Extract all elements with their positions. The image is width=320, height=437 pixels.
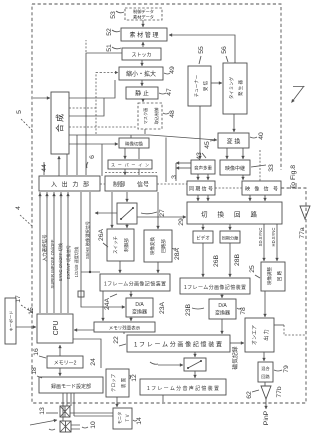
triangle 77a [300,206,310,219]
label 10 [90,421,97,429]
box Q video [193,231,213,243]
label 47 [159,88,173,96]
svg-text:信号: 信号 [137,181,149,189]
label 17 [15,295,33,313]
box 45: converter [218,133,249,148]
box 51: stocker [122,48,161,60]
signal line x81 to D/A [81,192,125,307]
svg-text:縮小・拡大: 縮小・拡大 [126,70,156,78]
svg-text:素材データ: 素材データ [133,13,154,20]
wire bus to N [111,192,113,228]
wire keyboard-CPU [16,326,36,328]
svg-text:D/A: D/A [135,302,144,308]
wires W1 to connectors [63,393,74,421]
box E2: superimpose [108,160,152,169]
svg-text:27: 27 [159,209,166,217]
box W: D/A 2 [209,299,236,319]
svg-text:24A: 24A [104,297,111,310]
label 33 [251,164,275,172]
svg-text:SD.SYNC: SD.SYNC [258,228,263,247]
wire 48 bottom stub [144,129,146,134]
label 44 [41,164,48,172]
svg-text:10: 10 [90,421,97,429]
svg-text:S5/H8 映像選択信号: S5/H8 映像選択信号 [84,221,91,259]
label 12 [130,374,138,382]
svg-text:77b: 77b [276,386,283,398]
label 29 [178,218,185,226]
wire 47-48 [142,99,144,102]
svg-text:回路部: 回路部 [160,239,167,253]
label 23B [185,303,204,316]
svg-text:映像変換: 映像変換 [149,237,156,255]
svg-text:1フレーム分音声記憶装置: 1フレーム分音声記憶装置 [147,385,219,392]
svg-text:5: 5 [16,110,23,114]
wire 56 bottom to box 45 [233,114,235,132]
svg-text:マスク画: マスク画 [143,108,149,125]
label 22 [113,336,126,346]
wire 50 right y135 long to 45 [69,135,217,140]
label 48 [163,110,176,118]
hatched connector box 2 [60,421,71,432]
label 26A [98,228,108,247]
svg-text:映像調整: 映像調整 [266,267,273,285]
svg-text:メモリー2: メモリー2 [54,361,77,367]
svg-text:取込制御: 取込制御 [153,108,160,125]
CPU box [37,314,73,343]
outer dashed system border [32,4,306,403]
box 26A: electronic switch [107,229,134,261]
box 50: composer (tall) [51,92,69,154]
svg-text:16: 16 [33,348,40,356]
svg-text:磁気記録: 磁気記録 [231,346,239,369]
label 24 [90,358,97,366]
svg-text:回 路: 回 路 [276,270,283,281]
wire T-X [264,291,266,317]
wire 50 right y144 to box E [69,143,118,145]
label 79 [274,365,290,373]
svg-text:12: 12 [131,374,138,382]
svg-text:出 力: 出 力 [263,329,270,340]
svg-text:1フレーム分画像記憶装置: 1フレーム分画像記憶装置 [104,281,166,288]
wires W3-Z1-S2 [194,352,196,357]
svg-text:53: 53 [110,11,117,19]
label 56 [221,46,228,62]
svg-text:51: 51 [106,44,113,52]
label 51 [106,44,121,52]
svg-text:3: 3 [171,175,178,179]
wire W2-W3 [123,332,125,334]
wires U1-V, V-W2 [130,291,132,297]
svg-text:47: 47 [166,88,173,96]
wire 33 down to B4 dashed [259,150,261,181]
svg-text:装 置: 装 置 [120,377,127,388]
wire CPU-M2 [59,345,61,356]
wire X-Y [263,352,265,361]
svg-text:15: 15 [28,307,35,315]
box T: adjust [261,262,285,291]
svg-text:入出力部: 入出力部 [51,181,89,189]
box R sync sep [220,231,240,243]
arrows into 43 from left [176,162,191,164]
CPU right wires: from W2 and to telop [74,329,94,331]
svg-text:メモリ残量表示: メモリ残量表示 [109,325,141,332]
box 49: reduce/enlarge [119,67,163,80]
svg-text:1フレーム分画像記憶装置: 1フレーム分画像記憶装置 [134,341,222,349]
svg-text:25: 25 [249,265,256,273]
label 13 [39,407,58,415]
wire 50 right y127 dashed long [69,126,136,128]
svg-text:28B: 28B [234,253,241,266]
svg-text:29: 29 [178,218,185,226]
wires P to Q,R [202,224,204,230]
svg-text:1フレーム分画像記憶装置: 1フレーム分画像記憶装置 [184,284,246,291]
label 49 [164,66,176,74]
wire 49-47 [141,80,143,86]
label 27 [141,209,166,217]
svg-text:映像中継: 映像中継 [225,165,245,172]
svg-text:録画モード設定部: 録画モード設定部 [51,383,91,390]
wire bus to O [157,192,159,229]
wire 50 bottom arrows to bus [58,156,60,176]
svg-text:14: 14 [136,417,143,425]
bottom box: monitor [113,408,132,429]
wire stocker left down to bus [86,53,122,175]
keyboard box [5,298,16,344]
label 23A [159,301,166,314]
wire 51-49 [141,60,143,66]
svg-text:77a: 77a [299,227,306,239]
svg-text:44: 44 [41,164,48,172]
svg-text:SUPER IMPOSE ON/OFF: SUPER IMPOSE ON/OFF [50,239,55,288]
label 52 [106,28,120,36]
svg-text:合 成: 合 成 [55,114,65,132]
wire 50 right y98 up to 49 [69,80,115,98]
label 18 [31,367,42,378]
wire into Z1 left [158,364,183,366]
label 78 [237,307,247,315]
svg-text:24: 24 [90,358,97,366]
svg-text:HD.SYNC: HD.SYNC [271,228,276,247]
wires N,O down to U1 [119,261,121,273]
svg-text:79: 79 [283,365,290,373]
wires U2-W, W-W3 [221,294,223,298]
svg-text:1/2/4/8 速度切換: 1/2/4/8 速度切換 [73,246,80,278]
box W3: frame store [127,335,230,352]
svg-text:映像切換: 映像切換 [125,140,143,147]
svg-text:55: 55 [198,46,205,54]
wires 45 to 33 [226,148,228,159]
wires 43 down to B3 [197,174,199,180]
box S1: telop [106,369,129,397]
wires E bottom to E2 [124,148,126,159]
bus box B1 [39,176,100,191]
SD/HD sync lines P to T [263,224,265,261]
wire 50 right y116 [69,98,104,116]
label 4 (system) [15,206,32,226]
svg-text:チューナー: チューナー [194,74,200,97]
svg-text:スーパーイン: スーパーイン [111,162,149,167]
labels 26B 28B [213,254,220,267]
label 14 [133,417,143,425]
wire bus to 27 [126,192,128,202]
box 47: still [126,87,158,99]
label 53 [110,11,124,19]
svg-text:入力選択信号: 入力選択信号 [41,234,48,261]
wire border to 50 [33,97,50,99]
svg-text:48: 48 [169,110,176,118]
svg-text:PinP: PinP [263,410,270,425]
wire 53-52 [142,20,144,27]
wire S1 to monitor [116,397,118,407]
input arrow bottom left [30,420,57,425]
svg-text:受 信: 受 信 [202,80,209,91]
svg-text:45: 45 [204,141,211,149]
signal line x90 to U1 [89,192,91,272]
wires connectors to monitor [70,413,113,429]
svg-text:切換回路: 切換回路 [201,210,258,219]
svg-text:ビデオ: ビデオ [196,235,210,242]
svg-text:ストッカ: ストッカ [131,53,151,59]
box P: selector [187,202,282,224]
box E: video switch [119,138,149,148]
svg-text:EXT/INT 切換信号: EXT/INT 切換信号 [65,245,72,279]
svg-text:素 材 管 理: 素 材 管 理 [129,31,158,39]
box 27: switch [117,203,137,224]
svg-text:49: 49 [169,66,176,74]
dashed box 53 (data store) [125,8,162,20]
svg-text:映像信号: 映像信号 [245,186,278,193]
label 16 [33,348,46,358]
label 28A [172,247,181,260]
svg-text:オンエア: オンエア [252,325,258,345]
svg-text:制御: 制御 [113,181,125,189]
box 43: audio mux [191,160,215,174]
svg-text:4: 4 [15,206,22,210]
hatched connector box 1 [60,406,70,417]
box U2: frame memory 2 [180,278,250,294]
label 3 on bus [171,175,178,179]
arrow from switch 27 to left [95,212,117,214]
svg-text:62: 62 [246,391,253,399]
wire W3-X [230,342,244,344]
svg-text:28A: 28A [174,247,181,260]
svg-text:33: 33 [268,164,275,172]
svg-text:音声多重: 音声多重 [194,165,212,172]
PinP output [265,399,267,409]
label 25 [249,265,260,278]
label 43 [196,152,206,160]
label 6 [87,155,96,168]
svg-text:26B: 26B [213,254,220,267]
svg-text:静 止: 静 止 [135,90,149,98]
svg-text:23B: 23B [185,303,192,316]
svg-text:SYNC ON/OFF 切換: SYNC ON/OFF 切換 [57,242,64,281]
bus box B2 [105,176,157,191]
small tilde label 11 [49,429,55,430]
wire 55 bottom to box 43 [199,106,201,159]
svg-text:18: 18 [31,367,38,375]
svg-text:17: 17 [15,295,22,303]
box V: D/A 1 [126,298,153,317]
svg-text:モニタ: モニタ [116,412,123,425]
svg-text:スイッチ: スイッチ [113,236,118,254]
label 15 [28,307,35,315]
box W1: record mode [39,377,103,393]
svg-text:26A: 26A [98,228,105,241]
svg-text:制御部: 制御部 [123,238,130,252]
svg-text:変換器: 変換器 [132,309,147,316]
to fig8 line [284,325,305,335]
svg-text:22: 22 [113,336,120,344]
wire U1 bottom-left to W2 [102,291,104,321]
svg-text:発 生 器: 発 生 器 [237,80,244,97]
wire B4 top stubs to P [249,195,251,201]
svg-text:キーボード: キーボード [8,311,14,332]
wire line y135 branch down to bus at x77 [76,135,78,175]
wire 55-56 [211,82,222,84]
svg-text:変 換: 変 換 [227,138,241,146]
wire S2 bottom stub [162,395,164,402]
label 45 [204,140,216,149]
bus box B3 [187,181,215,195]
box 56: timing [223,63,247,114]
wire 52-51 [142,42,144,47]
svg-text:タイミング: タイミング [228,76,235,99]
svg-text:ＴＶ: ＴＶ [125,414,130,422]
label 40 [250,132,265,140]
wire E top tick [130,135,132,138]
box 55: tuner [188,66,211,106]
svg-text:変換器: 変換器 [215,310,230,317]
wires E2 bottom to bus [124,169,126,175]
box Y: mixer [258,362,273,382]
svg-text:40: 40 [258,132,265,140]
triangle 77b [264,382,266,386]
box X: on-air [245,318,274,352]
bus box B4 [242,181,281,195]
box O: converter [144,230,172,262]
box 52: material management [121,28,167,41]
svg-text:同期分離: 同期分離 [222,234,240,241]
label 24A [104,294,117,310]
box W2: memory level [94,322,155,332]
svg-text:52: 52 [106,28,113,36]
label 55 [198,46,205,64]
svg-text:D/A: D/A [218,303,227,309]
wire 50 right y108 dashed [69,72,100,134]
svg-text:同期信号: 同期信号 [189,186,213,193]
wire 27 to P [137,216,186,218]
box 16: memory2 [47,356,83,368]
svg-text:テロップ: テロップ [111,374,117,392]
label 5 (system) [16,110,32,130]
wire from long line down to bus link [165,138,167,183]
svg-text:23A: 23A [159,301,166,314]
svg-text:13: 13 [39,407,46,415]
svg-text:6: 6 [89,155,96,159]
box 33: relay box [220,160,250,175]
dashed links between bus boxes [100,173,242,189]
label 62 [246,390,259,399]
svg-text:回路: 回路 [261,373,270,380]
svg-text:56: 56 [221,46,228,54]
wires Q,R to U2 [202,243,204,277]
box U1: frame memory 1 [100,274,170,291]
dashed box 48 [138,103,162,129]
svg-text:CPU: CPU [53,321,60,336]
svg-text:混合: 混合 [261,365,270,372]
box Z1: switch2 [184,358,206,371]
wire 52 to timing box (right) [169,35,235,63]
CPU signal lines from bus [39,192,41,313]
wire M2-W1 [59,368,61,376]
fig pointer arrow top right [292,86,305,103]
wire 27 to 26A [126,224,128,228]
box S2: audio store [140,379,226,395]
